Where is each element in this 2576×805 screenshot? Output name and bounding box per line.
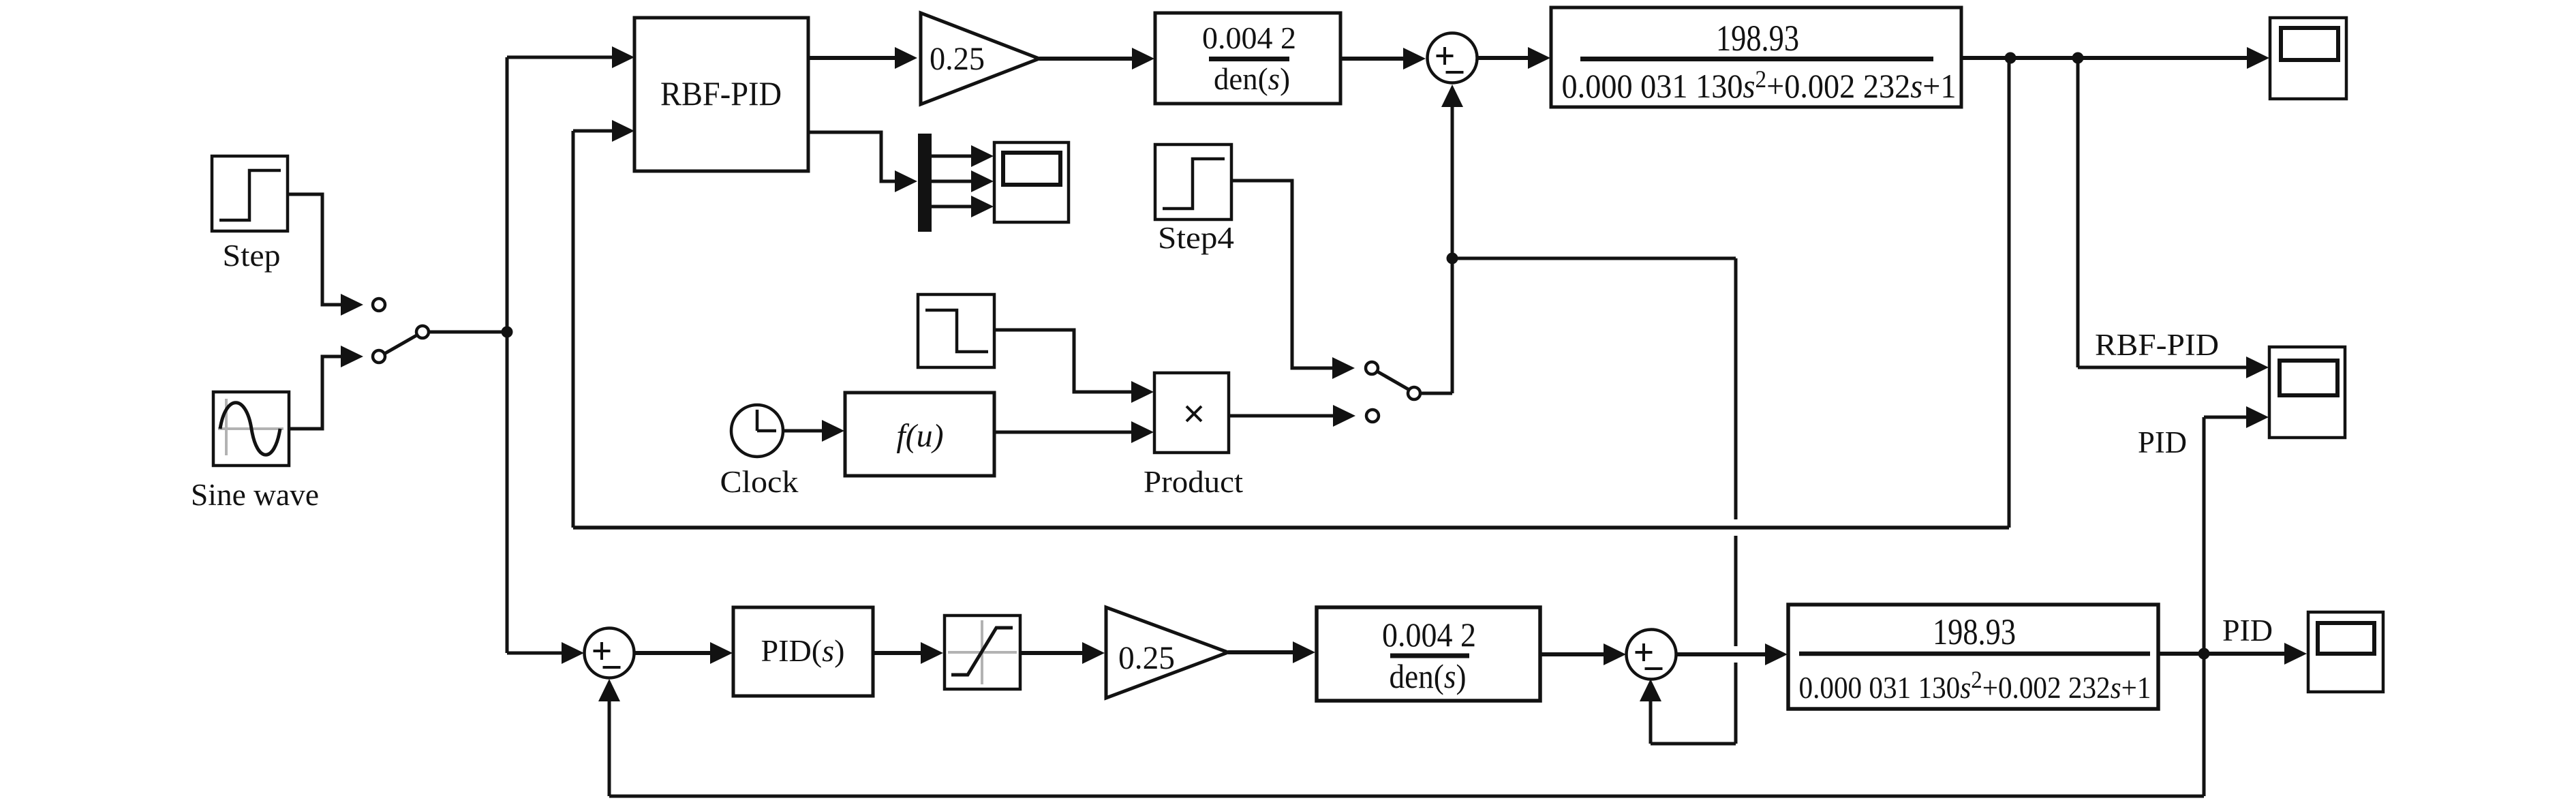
wire Saturation to Gain2 [1020, 642, 1105, 664]
wire Product to Switch2 in2 [1229, 405, 1355, 427]
wire bottom feedback [598, 654, 2204, 796]
wire TF1 to Sum1 [1340, 48, 1426, 70]
svg-text:PID: PID [2138, 425, 2187, 459]
svg-text:PID(s): PID(s) [761, 633, 845, 668]
mux Mux bar [918, 134, 932, 232]
source block Sine wave [213, 392, 289, 466]
wire Sum2 to PID [634, 642, 733, 664]
wire Mux to Scope0 line3 [932, 196, 994, 217]
wire disturbance down segment3 [1734, 663, 1738, 744]
wire Fcn to Product in2 [994, 421, 1154, 443]
svg-text:Clock: Clock [720, 465, 799, 499]
wire ref to RBF-PID in1 [507, 46, 634, 68]
node Plant2 output junction [2198, 648, 2210, 660]
gain Gain1 0.25 [921, 13, 1039, 104]
wire Step to switch1 in1 [288, 194, 363, 316]
manual switch Switch2 [1366, 362, 1452, 422]
wire Sine to switch1 in2 [289, 346, 363, 429]
wire PID to Saturation [873, 642, 943, 664]
wire feedback up to RBF-PID in2 [573, 120, 634, 528]
sum Sum1 +- [1428, 33, 1477, 83]
transfer fcn Plant1 198.93 second order [1551, 7, 1961, 107]
wire Switch2 up to Sum1 [1441, 85, 1463, 393]
wire PID response to Scope2 [2204, 406, 2269, 654]
wire RBF-PID out1 to Gain1 [808, 47, 917, 69]
sum Sum3 +- [1627, 630, 1676, 680]
wire Sum3 to Plant2 [1676, 643, 1788, 665]
wire Mux to Scope0 line2 [932, 170, 994, 192]
wire TF2 to Sum3 [1540, 643, 1626, 665]
wire Step4 to Switch2 in1 [1231, 181, 1355, 379]
wire Gain1 to TF1 [1039, 48, 1154, 70]
label RBF-PID at Scope2 [2095, 328, 2219, 362]
transfer fcn TF1 0.0042/den(s) [1155, 13, 1340, 104]
wire Plant1 to Scope1 [1961, 47, 2269, 69]
manual switch Switch1 [373, 299, 507, 363]
svg-text:RBF-PID: RBF-PID [2095, 328, 2219, 362]
source block Step [212, 156, 288, 231]
wire Gain2 to TF2 [1228, 641, 1315, 663]
svg-text:0.004 2: 0.004 2 [1202, 20, 1296, 55]
transfer fcn TF2 0.0042/den(s) [1317, 607, 1540, 701]
wire Clock to Fcn [783, 420, 844, 442]
label Step [223, 239, 281, 273]
source block Step4 [1155, 145, 1231, 219]
node disturbance junction [1447, 253, 1458, 264]
wire Plant2 to Scope3 [2158, 643, 2307, 665]
label Clock [720, 465, 799, 499]
wire RBF-PID out2 to Mux [808, 132, 917, 192]
wire Mux to Scope0 line1 [932, 145, 994, 167]
svg-text:0.25: 0.25 [930, 41, 985, 77]
node Plant1 output junction B [2072, 52, 2084, 64]
scope Scope2 [2269, 347, 2345, 438]
clock Clock [731, 405, 783, 457]
wire ref to Sum2 [507, 642, 584, 664]
scope Scope0 [994, 142, 1069, 222]
fcn block f(u) [845, 393, 994, 476]
label Sine wave [191, 478, 319, 512]
svg-text:PID: PID [2222, 613, 2273, 648]
node ref junction [502, 326, 513, 338]
wire ref vertical bus [506, 57, 509, 653]
svg-text:den(s): den(s) [1214, 61, 1290, 96]
svg-text:den(s): den(s) [1390, 657, 1467, 695]
label Step4 [1158, 221, 1234, 255]
label PID at Scope3 [2222, 613, 2273, 648]
svg-text:Product: Product [1144, 465, 1244, 499]
wire disturbance down segment1 [1734, 258, 1738, 519]
wire disturbance branch right [1452, 257, 1736, 260]
svg-text:Step: Step [223, 239, 281, 273]
controller block PID(s) [733, 607, 873, 696]
gain Gain2 0.25 [1106, 607, 1228, 698]
product block Product [1154, 373, 1229, 453]
scope Scope1 [2270, 18, 2346, 99]
svg-text:f(u): f(u) [896, 418, 943, 454]
svg-text:RBF-PID: RBF-PID [660, 74, 782, 112]
subsystem block RBF-PID [634, 18, 808, 171]
label Product [1144, 465, 1244, 499]
svg-text:198.93: 198.93 [1933, 611, 2016, 652]
label PID at Scope2 [2138, 425, 2187, 459]
scope Scope3 [2308, 612, 2383, 692]
svg-text:0.004 2: 0.004 2 [1382, 616, 1476, 654]
svg-text:Sine wave: Sine wave [191, 478, 319, 512]
transfer fcn Plant2 198.93 second order [1788, 605, 2158, 709]
svg-text:Step4: Step4 [1158, 221, 1234, 255]
saturation block [945, 616, 1020, 689]
wire feedback Plant1 output down [2008, 58, 2011, 528]
wire Sum1 to Plant1 [1477, 47, 1550, 69]
wire feedback horizontal to RBF-PID [573, 526, 2009, 530]
wire disturbance down segment2 [1734, 536, 1738, 646]
svg-text:0.25: 0.25 [1118, 640, 1175, 676]
wire Step3 to Product in1 [994, 330, 1154, 403]
node Plant1 output junction A [2005, 52, 2017, 64]
svg-text:198.93: 198.93 [1716, 18, 1799, 59]
wire RBF-PID response to Scope2 [2078, 58, 2269, 378]
wire disturbance to Sum3 [1640, 679, 1736, 744]
sum Sum2 +- [585, 628, 634, 678]
source block Step3 falling [918, 294, 994, 367]
